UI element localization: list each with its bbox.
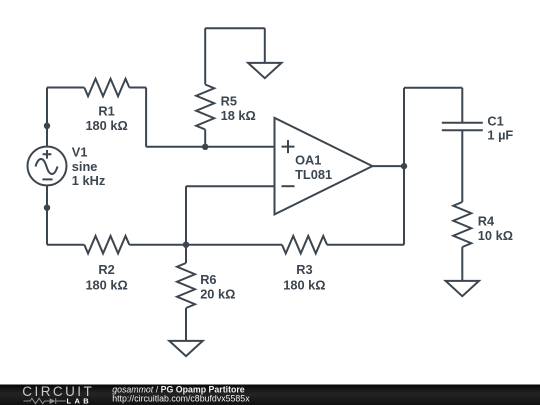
svg-text:TL081: TL081: [295, 167, 332, 182]
svg-text:180 kΩ: 180 kΩ: [85, 118, 127, 133]
svg-text:R2: R2: [98, 262, 114, 277]
wire output up: [403, 88, 405, 166]
svg-text:C1: C1: [487, 113, 503, 128]
svg-text:V1: V1: [72, 145, 88, 160]
wire R3 left lead: [186, 244, 282, 246]
wire op-amp output: [372, 165, 404, 167]
wire noninverting input row: [146, 146, 274, 148]
op-amp OA1: [275, 118, 373, 215]
node on V1 bottom wire: [44, 205, 50, 211]
node B junction R2/R3/R6: [183, 242, 189, 248]
svg-text:180 kΩ: 180 kΩ: [283, 277, 325, 292]
wire R1 right lead: [129, 87, 146, 89]
svg-text:1 kHz: 1 kHz: [72, 173, 105, 188]
wire R2 left lead: [47, 244, 84, 246]
wire output down feedback: [403, 166, 405, 245]
ground top: [248, 63, 281, 78]
wire R6 top lead: [185, 245, 187, 263]
wire top-right horizontal to C1: [404, 87, 462, 89]
svg-text:http://circuitlab.com/c8bufdvx: http://circuitlab.com/c8bufdvx5585x: [112, 394, 250, 404]
capacitor C1: [442, 88, 483, 202]
wire down from R1 to noninverting row: [145, 88, 147, 147]
wire R2 right lead: [129, 244, 186, 246]
svg-text:R6: R6: [200, 272, 216, 287]
svg-text:20 kΩ: 20 kΩ: [200, 286, 235, 301]
resistor R5: [196, 85, 214, 130]
ground R6: [169, 341, 202, 356]
wire top-left horizontal to R1: [47, 87, 84, 89]
svg-text:LAB: LAB: [67, 396, 93, 405]
wire inverting input vertical: [185, 186, 187, 245]
footer bar: [0, 385, 540, 405]
svg-text:R5: R5: [221, 94, 237, 109]
svg-text:R4: R4: [478, 214, 495, 229]
wire R6 bottom lead: [185, 308, 187, 341]
logo resistor-diode doodle: [24, 398, 66, 404]
resistor R3: [282, 236, 327, 254]
resistor R2: [84, 236, 129, 254]
wire R4 bottom lead: [461, 247, 463, 281]
svg-text:OA1: OA1: [295, 153, 321, 168]
voltage source V1: [28, 147, 67, 186]
svg-text:R3: R3: [296, 262, 312, 277]
node A junction R5/plus-input: [202, 144, 208, 150]
wire V1 bottom lead: [46, 186, 48, 245]
svg-text:180 kΩ: 180 kΩ: [85, 277, 127, 292]
wire R5 top lead: [204, 28, 206, 84]
resistor R4: [453, 202, 471, 247]
wire top horizontal to ground: [205, 27, 265, 29]
wire inverting input row: [186, 185, 275, 187]
svg-text:R1: R1: [98, 103, 114, 118]
node output junction: [401, 163, 407, 169]
svg-text:10 kΩ: 10 kΩ: [478, 228, 513, 243]
node on V1 top wire: [44, 123, 50, 129]
wire R5 bottom lead: [204, 130, 206, 147]
wire V1 top lead: [46, 88, 48, 147]
resistor R6: [177, 263, 195, 308]
wire ground drop: [264, 28, 266, 63]
wire feedback horizontal right of R3: [327, 244, 404, 246]
resistor R1: [84, 79, 129, 97]
svg-text:sine: sine: [72, 159, 98, 174]
svg-text:1 µF: 1 µF: [487, 128, 513, 143]
svg-text:18 kΩ: 18 kΩ: [221, 108, 256, 123]
ground R4: [446, 281, 479, 296]
